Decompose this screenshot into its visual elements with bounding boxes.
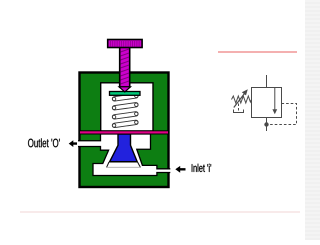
symbol: drain to tank — [234, 104, 244, 113]
symbol: adjustable spring — [232, 96, 252, 103]
spring — [112, 93, 138, 127]
symbol: flow arrow — [272, 88, 277, 114]
symbol: pilot line (dashed) — [269, 104, 297, 125]
symbol: top port line — [266, 75, 268, 88]
inlet arrow — [175, 166, 185, 173]
outlet arrow — [69, 140, 77, 147]
symbol: junction dot — [264, 122, 268, 126]
spring seat bar — [110, 92, 141, 96]
outlet label — [28, 138, 60, 147]
diaphragm — [80, 131, 169, 134]
symbol: bottom port line — [266, 118, 268, 132]
screw tip — [119, 87, 131, 92]
adjusting screw shaft — [120, 46, 130, 87]
poppet pedestal — [107, 162, 141, 168]
symbol: valve box — [252, 88, 282, 118]
spring chamber cavity — [101, 83, 153, 131]
lower cavity (outlet chamber, seat gaps, bottom chamber, ports) — [78, 134, 170, 176]
right edge textured strip — [305, 0, 320, 240]
bottom faint pink rule — [20, 211, 300, 213]
lower cavity outline (openings left unstroked) — [78, 134, 170, 176]
symbol: adjustment arrow — [234, 89, 248, 107]
inlet label — [192, 164, 211, 172]
poppet (blue) — [110, 134, 138, 162]
screw head — [108, 40, 142, 48]
top salmon rule — [218, 51, 297, 53]
valve body — [80, 73, 169, 188]
